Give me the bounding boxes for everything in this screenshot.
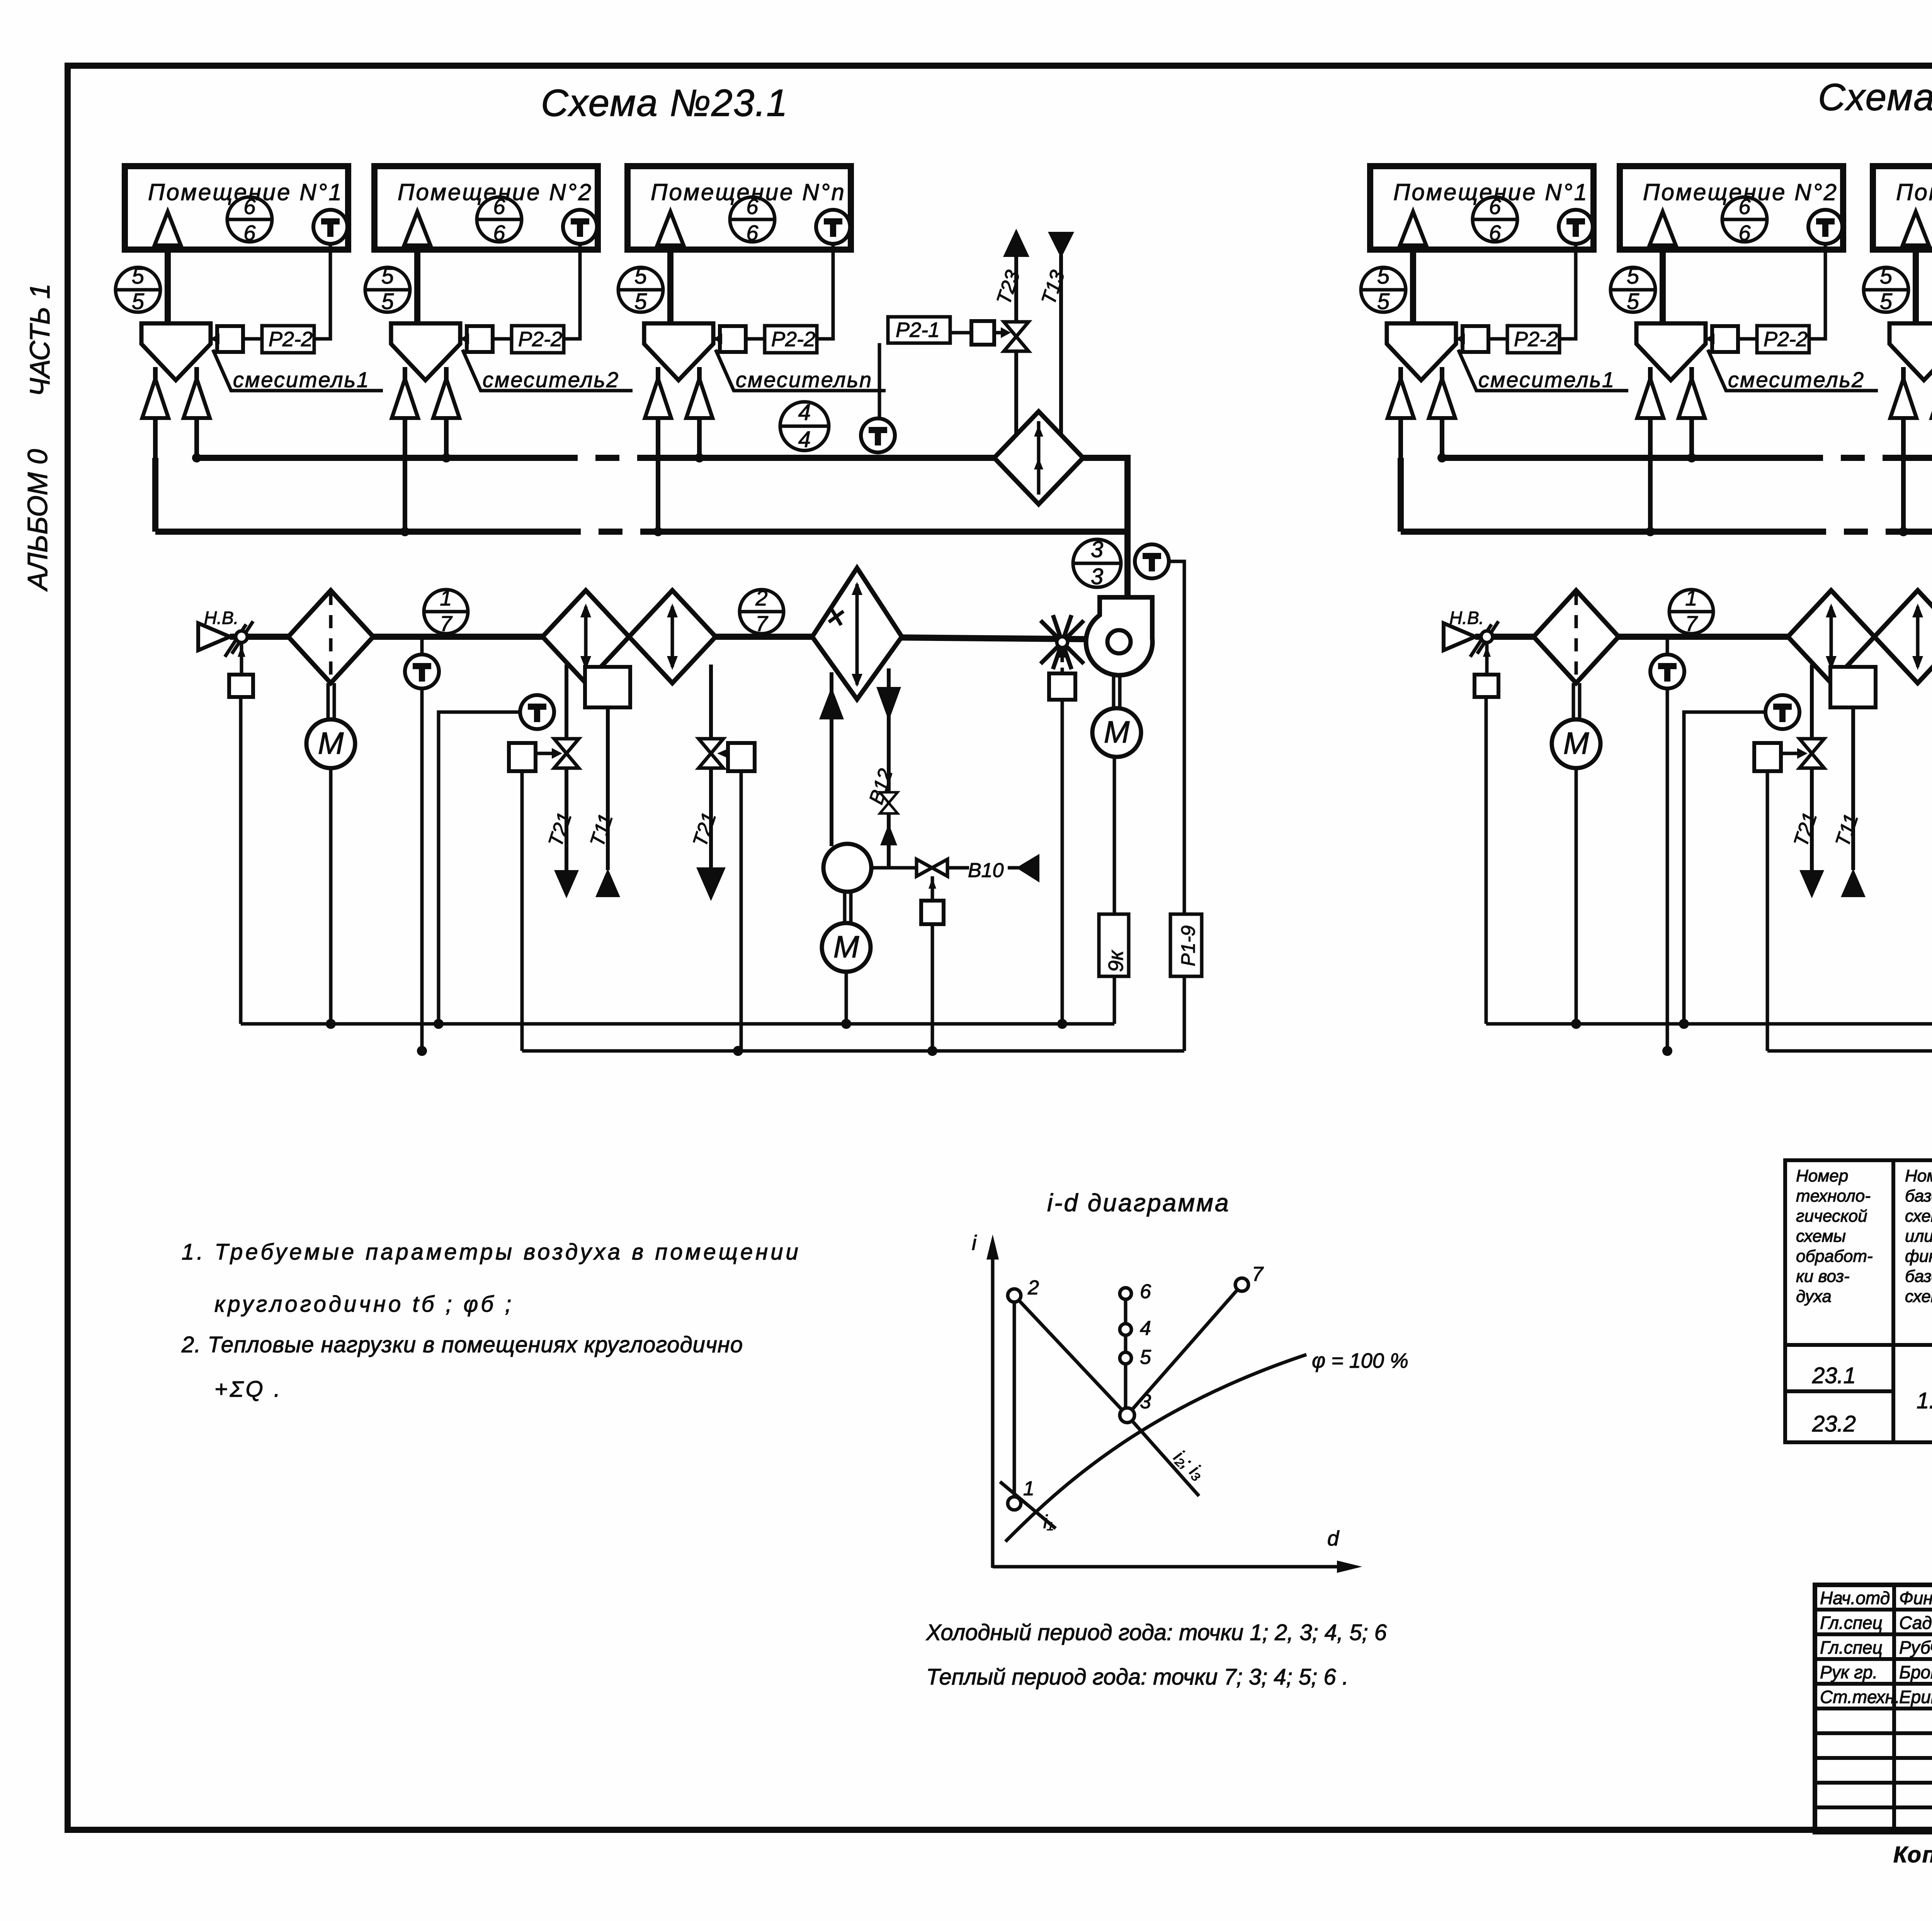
sensor T heater: [439, 695, 554, 1024]
heater water collector: [585, 667, 630, 707]
svg-text:смеситель1: смеситель1: [1478, 367, 1615, 392]
point 6: [1120, 1280, 1151, 1303]
svg-text:4: 4: [798, 400, 811, 425]
svg-text:ЧАСТЬ 1: ЧАСТЬ 1: [25, 284, 56, 397]
svg-text:1.1; 1.2: 1.1; 1.2: [1917, 1388, 1932, 1413]
node Н.В. fresh air intake: [198, 608, 238, 650]
label circle 4/4: [780, 402, 829, 450]
svg-text:В10: В10: [968, 859, 1004, 882]
svg-text:схемы КТЦ: схемы КТЦ: [1905, 1287, 1932, 1306]
svg-text:Помещение N°n: Помещение N°n: [1896, 179, 1932, 205]
duct humidifier to fan: [902, 637, 1117, 639]
intake damper: [225, 621, 288, 675]
return air duct lower: [155, 458, 1128, 532]
svg-text:2: 2: [1027, 1277, 1039, 1299]
wire filter motor drop: [329, 768, 333, 1024]
svg-text:Помещение N°1: Помещение N°1: [148, 179, 343, 205]
svg-text:базовой: базовой: [1905, 1267, 1932, 1286]
svg-text:Рубчинский: Рубчинский: [1899, 1637, 1932, 1657]
sensor T duct: [405, 637, 439, 688]
pipe В12: [865, 668, 901, 868]
svg-text:5: 5: [1140, 1346, 1151, 1368]
sensor T fan outlet: [1135, 544, 1169, 578]
junction dots scheme 2: [1437, 453, 1932, 1056]
pipe В10 with valve: [871, 854, 1039, 882]
svg-text:1: 1: [1023, 1477, 1034, 1500]
svg-text:3: 3: [1140, 1391, 1151, 1413]
wire pump motor drop: [845, 971, 848, 1024]
pipe Т13: [1037, 232, 1074, 433]
point 2: [1008, 1277, 1039, 1302]
heater 1 diamond: [543, 590, 629, 683]
svg-text:Нач.отд: Нач.отд: [1820, 1588, 1890, 1608]
wire intake actuator drop: [239, 697, 243, 1024]
svg-text:3: 3: [1091, 537, 1103, 562]
filter diamond: [288, 590, 373, 683]
svg-text:круглогодично tб ; φб ;: круглогодично tб ; φб ;: [214, 1292, 514, 1317]
room box 2 (scheme 2): [1611, 166, 1878, 532]
svg-text:Ст.техн.: Ст.техн.: [1820, 1687, 1900, 1707]
svg-text:7: 7: [1252, 1263, 1264, 1285]
fan motor M: [1092, 708, 1141, 757]
valve Т23: [1004, 322, 1029, 351]
svg-text:Номера,: Номера,: [1905, 1166, 1932, 1185]
room box n (scheme 2): [1864, 166, 1932, 532]
supply fan: [1086, 597, 1153, 675]
damper actuator square: [1049, 668, 1075, 700]
svg-text:7: 7: [755, 611, 768, 636]
svg-text:4: 4: [1140, 1317, 1151, 1340]
svg-text:6: 6: [1140, 1280, 1151, 1303]
label circle 3/3: [1073, 539, 1121, 587]
heater valve T21 right: [689, 665, 726, 901]
svg-text:АЛЬБОМ 0: АЛЬБОМ 0: [22, 449, 53, 592]
point 3: [1120, 1391, 1151, 1423]
wire В10 actuator square: [921, 876, 944, 1051]
svg-text:Рук гр.: Рук гр.: [1820, 1662, 1878, 1682]
wire Р1-9 to bus: [1183, 976, 1186, 1051]
actuator square T21 left: [509, 743, 562, 1051]
svg-text:Копировал: Данилина: Копировал: Данилина: [1893, 1842, 1932, 1867]
heater 2 diamond: [629, 590, 716, 683]
svg-text:гической: гической: [1796, 1207, 1867, 1226]
svg-text:смеситель1: смеситель1: [233, 367, 370, 392]
svg-text:техноло-: техноло-: [1796, 1187, 1871, 1205]
svg-text:23.1: 23.1: [1812, 1363, 1856, 1388]
motor M filter: [306, 719, 355, 768]
spray pump: [823, 844, 871, 923]
duct heaters to humidifier: [716, 634, 812, 640]
svg-text:Схема № 23.2: Схема № 23.2: [1818, 76, 1932, 118]
junction dots scheme 1: [192, 453, 1067, 1056]
i axis: [972, 1231, 999, 1568]
pipe Т23: [992, 229, 1029, 433]
title block: [1815, 1585, 1932, 1833]
humidifier chamber diamond: [812, 568, 902, 699]
point 4: [1120, 1317, 1151, 1340]
return air duct upper: [197, 458, 1128, 597]
room box 1 (scheme 2): [1361, 166, 1628, 532]
svg-text:Ерина: Ерина: [1899, 1687, 1932, 1707]
i-d diagram: [925, 1189, 1408, 1690]
svg-text:смеситель2: смеситель2: [483, 367, 619, 392]
svg-text:+ΣQ .: +ΣQ .: [214, 1377, 282, 1402]
spray water pipe: [819, 672, 844, 846]
svg-text:Помещение N°n: Помещение N°n: [651, 179, 846, 205]
svg-text:Помещение N°2: Помещение N°2: [1643, 179, 1838, 205]
svg-text:базовой: базовой: [1905, 1187, 1932, 1205]
wire bus lower scheme 1: [522, 1049, 1184, 1053]
notes text: [181, 1239, 801, 1402]
sensor T return duct: [861, 343, 895, 452]
use chain for scheme 2: [1401, 229, 1932, 1051]
svg-text:23.2: 23.2: [1812, 1411, 1856, 1436]
room box 2: [365, 166, 633, 532]
fan motor link: [1114, 675, 1120, 708]
point 1: [1008, 1477, 1034, 1510]
wire 9к to bus: [1113, 976, 1116, 1024]
svg-text:духа: духа: [1796, 1287, 1832, 1306]
svg-text:i: i: [972, 1231, 977, 1255]
svg-text:фикации: фикации: [1905, 1247, 1932, 1266]
heater valve T21 left: [544, 665, 579, 898]
actuator square T21 right: [717, 743, 755, 1051]
svg-text:Р2-1: Р2-1: [896, 318, 940, 342]
wire damper actuator drop: [1061, 700, 1064, 1024]
svg-text:i₁: i₁: [1043, 1512, 1053, 1532]
svg-text:Р1-9: Р1-9: [1177, 925, 1199, 966]
svg-text:схемы: схемы: [1796, 1227, 1846, 1246]
svg-text:Гл.спец: Гл.спец: [1820, 1637, 1883, 1657]
svg-text:Помещение N°2: Помещение N°2: [398, 179, 593, 205]
svg-text:2: 2: [755, 586, 767, 610]
d axis: [993, 1527, 1362, 1573]
svg-text:схемы: схемы: [1905, 1207, 1932, 1226]
process lines: [1000, 1285, 1306, 1542]
filter motor link: [328, 683, 334, 719]
svg-text:Бронштейн: Бронштейн: [1899, 1662, 1932, 1682]
duct filter to heaters: [373, 634, 543, 640]
svg-text:1: 1: [440, 586, 452, 610]
wire bus upper scheme 1: [241, 1022, 1114, 1026]
svg-text:Садовская: Садовская: [1899, 1613, 1932, 1633]
wire bus lower scheme 2: [1767, 1049, 1932, 1053]
svg-text:смесительn: смесительn: [736, 367, 872, 392]
heat recovery diamond: [994, 411, 1083, 504]
svg-text:4: 4: [798, 427, 811, 452]
relay box 9к: [1099, 914, 1129, 976]
svg-text:Холодный период года: точки: Холодный период года: точки 1; 2, 3; 4, …: [925, 1620, 1387, 1645]
svg-text:Гл.спец: Гл.спец: [1820, 1613, 1883, 1633]
svg-text:i-d диаграмма: i-d диаграмма: [1047, 1189, 1230, 1217]
svg-text:ки воз-: ки воз-: [1796, 1267, 1850, 1286]
room box n: [618, 166, 886, 532]
intake actuator square: [229, 675, 253, 697]
svg-text:Схема №23.1: Схема №23.1: [541, 82, 788, 124]
pump motor M: [822, 923, 871, 972]
svg-text:Фингер: Фингер: [1899, 1588, 1932, 1608]
label circle 1/7: [424, 590, 468, 634]
point 5: [1120, 1346, 1151, 1368]
svg-text:φ = 100 %: φ = 100 %: [1312, 1349, 1408, 1372]
wire fan sensor to Р1-9: [1169, 561, 1184, 914]
actuator square Т23: [950, 321, 1011, 345]
albums reference table: [1785, 1160, 1932, 1442]
wire filter motor drop (2): [1575, 768, 1578, 1024]
svg-text:смеситель2: смеситель2: [1728, 367, 1865, 392]
point 7: [1235, 1263, 1264, 1291]
svg-text:1. Требуемые параметры возд: 1. Требуемые параметры воздуха в помещен…: [182, 1239, 801, 1265]
relay box Р1-9: [1170, 914, 1202, 976]
svg-text:Теплый период года: точки: Теплый период года: точки 7; 3; 4; 5; 6 …: [926, 1664, 1349, 1690]
svg-text:2. Тепловые нагрузки в поме: 2. Тепловые нагрузки в помещениях кругло…: [181, 1332, 743, 1357]
wire bus upper scheme 2: [1486, 1022, 1932, 1026]
svg-text:или моди-: или моди-: [1905, 1227, 1932, 1246]
svg-text:7: 7: [440, 611, 452, 636]
fan inlet damper: [1041, 615, 1084, 669]
svg-text:9к: 9к: [1104, 950, 1128, 972]
controller Р2-1: [888, 317, 950, 343]
svg-text:Помещение N°1: Помещение N°1: [1393, 179, 1588, 205]
wire duct sensor drop: [420, 688, 424, 1051]
pipe T11: [586, 707, 620, 897]
label circle 2/7: [740, 590, 784, 634]
svg-text:3: 3: [1091, 564, 1103, 589]
svg-text:Н.В.: Н.В.: [204, 608, 238, 628]
wire intake actuator drop (2): [1485, 697, 1488, 1024]
wire fan motor to 9к: [1113, 757, 1116, 914]
svg-text:обработ-: обработ-: [1796, 1247, 1873, 1266]
svg-text:d: d: [1327, 1527, 1340, 1550]
svg-text:Номер: Номер: [1796, 1166, 1848, 1185]
wire duct sensor drop (2): [1666, 688, 1669, 1051]
room box 1: [116, 166, 383, 532]
